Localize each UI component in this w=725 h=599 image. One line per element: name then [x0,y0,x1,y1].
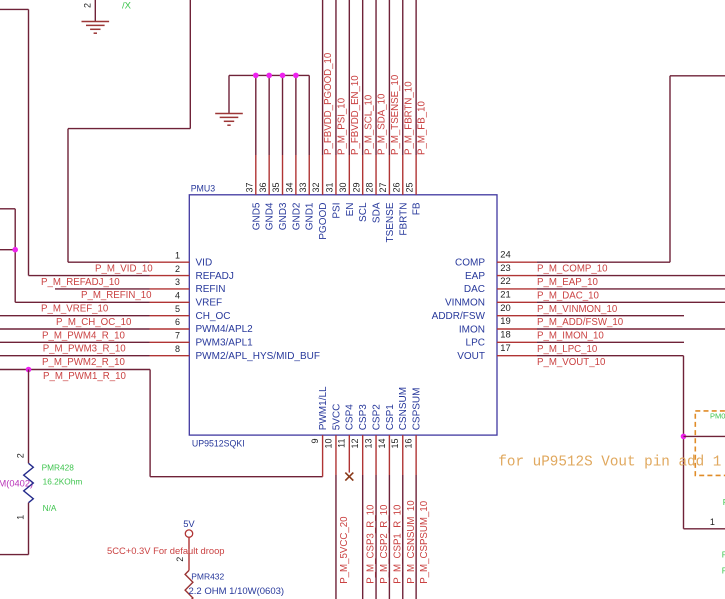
svg-text:14: 14 [377,439,387,449]
svg-text:P_M_VREF_10: P_M_VREF_10 [41,304,109,315]
pin 12 CSP3 stub [362,435,364,475]
svg-text:P_M_LPC_10: P_M_LPC_10 [537,344,598,355]
junction gnd bus [280,73,286,79]
svg-text:PMU3: PMU3 [191,184,216,194]
wire pin 12 to bottom edge [362,475,364,599]
svg-text:37: 37 [244,182,254,192]
svg-text:DAC: DAC [464,284,485,295]
svg-text:REFIN: REFIN [196,284,226,295]
svg-text:P_M_CSP2_R_10: P_M_CSP2_R_10 [379,504,390,584]
junction VREF [12,247,18,253]
svg-text:7: 7 [175,331,180,341]
op-amp/controller U: PMU3 UP9512SQKI body [189,195,497,435]
junction gnd bus [266,73,272,79]
wire VID to pin 1 [68,261,150,263]
pin 26 FBRTN stub [402,155,404,195]
wire pin 28 to top edge [375,0,377,155]
svg-text:CH_OC: CH_OC [196,311,231,322]
wire pin 14 to bottom edge [388,475,390,599]
svg-text:P_M_FB_10: P_M_FB_10 [417,101,428,155]
svg-text:EN: EN [345,203,356,217]
svg-text:P_M_FBRTN_10: P_M_FBRTN_10 [403,81,414,155]
no-connect X on pin 11 [345,473,353,481]
pin 11 CSP4 stub [348,435,350,473]
wire gnd drop [268,75,270,155]
pin 3 REFIN stub [150,288,190,290]
svg-text:PWM2/APL_HYS/MID_BUF: PWM2/APL_HYS/MID_BUF [196,351,320,362]
wire VID vertical down [67,129,69,263]
svg-text:N/A: N/A [43,503,57,513]
svg-text:VREF: VREF [196,297,223,308]
pin 7 PWM3/APL1 stub [150,341,190,343]
svg-text:2: 2 [175,557,185,562]
svg-text:18: 18 [500,329,510,340]
svg-text:29: 29 [351,182,361,192]
wire pin 25 to top edge [415,0,417,155]
wire VOUT vertical [683,356,685,529]
svg-text:CSP1: CSP1 [385,404,396,431]
svg-text:12: 12 [350,439,360,449]
svg-text:GND2: GND2 [291,202,302,230]
pin 19 IMON stub [497,328,537,330]
pin 9 PWM1/LL stub [322,435,324,477]
pin 33 GND1 stub [308,155,310,195]
svg-text:P_M_IMON_10: P_M_IMON_10 [537,331,604,342]
junction PWM1 / PMR428 [26,367,32,373]
wire gnd drop [255,75,257,155]
svg-text:24: 24 [500,248,510,259]
pin 28 SDA stub [375,155,377,195]
wire pin 32 to top edge [322,0,324,155]
pin 10 5VCC stub [335,435,337,475]
wire VID vertical from top [189,0,191,129]
svg-text:5VCC: 5VCC [331,404,342,431]
svg-text:30: 30 [338,182,348,192]
svg-text:P_M_REFIN_10: P_M_REFIN_10 [81,290,152,301]
svg-text:4: 4 [175,290,180,300]
svg-text:EAP: EAP [465,271,485,282]
svg-text:P_M_EAP_10: P_M_EAP_10 [537,277,598,288]
wire EAP [537,275,725,277]
svg-text:P_M_PSI_10: P_M_PSI_10 [337,97,348,155]
svg-text:6: 6 [175,317,180,327]
svg-text:REFADJ: REFADJ [196,271,234,282]
pin 35 GND3 stub [282,155,284,195]
svg-text:PGOOD: PGOOD [318,203,329,240]
svg-text:35: 35 [271,182,281,192]
svg-text:P_M_DAC_10: P_M_DAC_10 [537,290,600,301]
pin 29 SCL stub [362,155,364,195]
svg-text:/X: /X [122,1,132,12]
svg-text:13: 13 [363,439,373,449]
svg-text:IMON: IMON [459,324,485,335]
svg-text:P_M_PWM4_R_10: P_M_PWM4_R_10 [42,330,126,341]
svg-text:P_M_CH_OC_10: P_M_CH_OC_10 [56,317,132,328]
svg-text:CSPSUM: CSPSUM [412,388,423,431]
resistor PMR432 (cut at bottom) [185,570,193,599]
svg-text:GND3: GND3 [278,202,289,230]
pin 13 CSP2 stub [375,435,377,475]
svg-text:2.2 OHM 1/10W(0603): 2.2 OHM 1/10W(0603) [189,586,285,597]
pin 4 VREF stub [150,301,190,303]
svg-text:LPC: LPC [466,338,485,349]
svg-text:2: 2 [175,264,180,274]
pin 20 ADDR/FSW stub [497,315,537,317]
svg-text:5V: 5V [183,518,195,529]
svg-text:31: 31 [325,182,335,192]
svg-text:28: 28 [365,182,375,192]
svg-text:SCL: SCL [358,202,369,222]
pin 1 VID stub [150,261,190,263]
svg-text:P_FBVDD_EN_10: P_FBVDD_EN_10 [350,75,361,155]
svg-text:P_M_SDA_10: P_M_SDA_10 [377,93,388,155]
wire VOUT branch to right edge [684,435,725,437]
svg-text:34: 34 [284,182,294,192]
svg-text:P_M_COMP_10: P_M_COMP_10 [537,264,608,275]
pin 30 EN stub [348,155,350,195]
svg-text:P_M_ADD/FSW_10: P_M_ADD/FSW_10 [537,317,624,328]
svg-text:P_M_CSP3_R_10: P_M_CSP3_R_10 [366,504,377,584]
wire PWM3 to pin 7 [0,341,150,343]
svg-text:25: 25 [405,182,415,192]
wire ADDR/FSW stub [537,315,684,317]
wire pin 26 to top edge [402,0,404,155]
wire to PMR428 [28,370,30,464]
wire pin 13 to bottom edge [375,475,377,599]
wire REFADJ to pin 2 [29,275,150,277]
wire VREF vertical [14,209,16,302]
svg-text:19: 19 [500,315,510,326]
wire REFADJ from left edge [0,8,29,10]
svg-text:VINMON: VINMON [445,298,485,309]
svg-text:16: 16 [404,439,414,449]
svg-text:10: 10 [323,439,333,449]
wire IMON [537,328,725,330]
wire gnd drop corner GND1 [308,75,310,155]
pin 24 COMP stub [497,261,537,263]
wire COMP to right edge [670,75,725,77]
pin 31 PSI stub [335,155,337,195]
svg-text:16.2KOhm: 16.2KOhm [43,477,83,487]
resistor PMR428 [24,463,34,502]
svg-text:5: 5 [175,304,180,314]
svg-text:P_M_SCL_10: P_M_SCL_10 [363,94,374,155]
svg-text:FBRTN: FBRTN [398,203,409,236]
wire 5V to PMR432 [188,537,190,570]
svg-text:P_FBVDD_PGOOD_10: P_FBVDD_PGOOD_10 [323,52,334,155]
svg-text:PMR432: PMR432 [191,571,224,581]
wire pin 30 to top edge [348,0,350,155]
svg-text:CSP3: CSP3 [358,404,369,431]
svg-text:P_M_VID_10: P_M_VID_10 [95,264,153,275]
svg-text:TSENSE: TSENSE [385,202,396,242]
svg-text:VID: VID [196,257,213,268]
svg-text:PWM3/APL1: PWM3/APL1 [196,338,254,349]
pin 37 GND5 stub [255,155,257,195]
svg-text:PM06: PM06 [710,411,725,420]
svg-text:1: 1 [175,250,180,260]
pin 34 GND2 stub [295,155,297,195]
wire VREF stub lower [0,249,15,251]
wire to left edge [0,554,29,556]
wire REFIN to pin 3 [55,288,150,290]
svg-text:for uP9512S Vout pin add 1: for uP9512S Vout pin add 1 [498,454,721,470]
pin 21 VINMON stub [497,301,537,303]
svg-text:32: 32 [311,182,321,192]
svg-text:FB: FB [412,202,423,215]
svg-text:P_M_VINMON_10: P_M_VINMON_10 [537,304,618,315]
wire below PMR428 [28,503,30,555]
pin 6 PWM4/APL2 stub [150,328,190,330]
wire VREF to pin 4 [15,301,149,303]
svg-text:CSP4: CSP4 [345,404,356,431]
junction gnd bus [253,73,259,79]
pin 14 CSP1 stub [388,435,390,475]
svg-text:15: 15 [390,439,400,449]
svg-text:GND1: GND1 [305,202,316,230]
svg-text:GND4: GND4 [265,202,276,230]
gnd bus wire [229,74,309,76]
pin 36 GND4 stub [268,155,270,195]
wire CH_OC to pin 5 [0,315,150,317]
svg-text:3: 3 [175,277,180,287]
svg-text:8: 8 [175,344,180,354]
pin 2 REFADJ stub [150,275,190,277]
wire VOUT horizontal [537,355,684,357]
pin 22 DAC stub [497,288,537,290]
wire to ground symbol [228,75,230,113]
wire to ground symbol G1 [94,0,96,22]
orange dashed group box [695,411,725,476]
pin 25 FB stub [415,155,417,195]
svg-text:CSNSUM: CSNSUM [398,387,409,430]
wire pin 31 to top edge [335,0,337,155]
svg-text:P_M_REFADJ_10: P_M_REFADJ_10 [41,277,120,288]
wire COMP horizontal [537,261,670,263]
pin 8 PWM2/APL_HYS/MID_BUF stub [150,355,190,357]
wire PWM4 to pin 6 [0,328,150,330]
pin 32 PGOOD stub [322,155,324,195]
svg-text:PMR428: PMR428 [42,463,75,473]
svg-text:GND5: GND5 [251,202,262,230]
wire gnd drop [282,75,284,155]
junction gnd bus [293,73,299,79]
wire PWM1 vertical [149,370,151,477]
svg-text:P_M_PWM3_R_10: P_M_PWM3_R_10 [43,344,127,355]
svg-text:SDA: SDA [372,202,383,223]
svg-text:23: 23 [500,262,510,273]
wire VREF stub upper [0,208,15,210]
svg-text:5CC+0.3V For default droop: 5CC+0.3V For default droop [107,545,225,556]
svg-text:P_M_CSP1_R_10: P_M_CSP1_R_10 [392,504,403,584]
ground symbol G2 [215,114,243,126]
svg-text:P_M_CSNSUM_10: P_M_CSNSUM_10 [406,500,417,584]
svg-text:ADDR/FSW: ADDR/FSW [432,311,486,322]
svg-text:36: 36 [258,182,268,192]
wire COMP vertical [669,76,671,262]
svg-text:P_M_PWM2_R_10: P_M_PWM2_R_10 [42,357,126,368]
wire PWM1 horizontal [0,369,150,371]
svg-text:11: 11 [337,439,347,448]
pin 15 CSNSUM stub [402,435,404,475]
svg-text:17: 17 [500,342,510,353]
svg-text:COMP: COMP [455,258,485,269]
wire VINMON [537,301,725,303]
wire PWM1 to pin 9 [150,476,323,478]
wire VID horizontal [68,128,190,130]
wire gnd drop [295,75,297,155]
svg-text:22: 22 [500,275,510,286]
pin 18 LPC stub [497,341,537,343]
pin 23 EAP stub [497,275,537,277]
svg-text:CSP2: CSP2 [371,404,382,431]
pin 16 CSPSUM stub [415,435,417,475]
svg-text:P_M_VOUT_10: P_M_VOUT_10 [537,357,606,368]
svg-text:P_M_CSPSUM_10: P_M_CSPSUM_10 [419,500,430,584]
svg-text:20: 20 [500,302,510,313]
svg-text:2: 2 [83,3,93,8]
wire DAC [537,288,725,290]
svg-text:PWM4/APL2: PWM4/APL2 [196,324,254,335]
pin 17 VOUT stub [497,355,537,357]
pin 5 CH_OC stub [150,315,190,317]
svg-text:1: 1 [710,517,715,527]
svg-text:9: 9 [310,439,320,444]
wire pin 16 to bottom edge [415,475,417,599]
svg-text:UP9512SQKI: UP9512SQKI [192,438,245,448]
wire LPC stub [537,341,684,343]
svg-text:P_M_TSENSE_10: P_M_TSENSE_10 [390,74,401,155]
svg-text:1: 1 [16,515,26,520]
svg-text:33: 33 [298,182,308,192]
pin 27 TSENSE stub [388,155,390,195]
svg-text:P_M_PWM1_R_10: P_M_PWM1_R_10 [43,371,127,382]
svg-text:27: 27 [378,182,388,192]
svg-text:21: 21 [500,288,510,299]
wire VOUT bottom to right edge [684,528,725,530]
wire pin 29 to top edge [362,0,364,155]
svg-text:26: 26 [391,182,401,192]
wire REFADJ vertical [28,9,30,275]
wire pin 27 to top edge [388,0,390,155]
svg-text:VOUT: VOUT [457,351,485,362]
svg-text:P_M_5VCC_20: P_M_5VCC_20 [339,516,350,584]
power symbol 5V circle [185,530,192,537]
svg-text:PSI: PSI [331,203,342,219]
wire pin 15 to bottom edge [402,475,404,599]
wire PWM2 to pin 8 [0,355,150,357]
ground symbol G1 [82,22,110,34]
wire pin 10 to bottom edge [335,475,337,599]
svg-text:2: 2 [16,453,26,458]
svg-text:PWM1/LL: PWM1/LL [318,386,329,430]
junction VOUT branch [681,434,687,440]
